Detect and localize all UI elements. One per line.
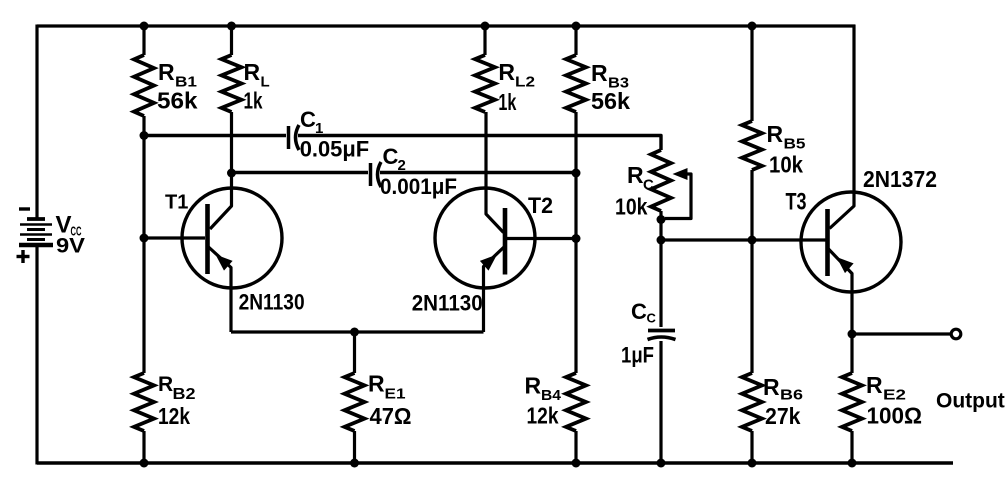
- wire T2 emitter lead: [484, 247, 505, 332]
- wire bottom ground rail: [37, 461, 953, 464]
- svg-text:27k: 27k: [765, 403, 801, 429]
- node T1 base tap: [140, 234, 149, 243]
- node T3 emitter / RE2 / output: [848, 330, 857, 339]
- svg-text:56k: 56k: [157, 88, 198, 114]
- capacitor Cc bottom plate: [648, 337, 676, 340]
- node T2 base / RB3 line: [572, 234, 581, 243]
- transistor T2 emitter arrow (PNP): [480, 255, 497, 271]
- wire T1 base lead: [144, 236, 205, 239]
- transistor T2 body: [435, 188, 535, 288]
- svg-text:2N1130: 2N1130: [412, 291, 483, 316]
- wire C2 right (to T2 base node): [380, 171, 576, 174]
- svg-text:C: C: [643, 177, 654, 194]
- transistor T1 body: [182, 188, 282, 288]
- svg-text:B4: B4: [541, 387, 562, 404]
- svg-text:C: C: [300, 107, 316, 132]
- wire RB3 top lead: [574, 26, 577, 55]
- wire T2 base lead: [507, 237, 576, 240]
- transistor T1 emitter arrow (PNP): [216, 255, 233, 271]
- wire RB5 bottom to RB6 top: [750, 170, 753, 373]
- wire T3 collector lead: [830, 25, 855, 229]
- wire T1/T2 emitter bus: [231, 330, 484, 333]
- svg-text:56k: 56k: [591, 88, 630, 114]
- wire T1 collector lead: [210, 173, 232, 229]
- transistor T3 emitter arrow (PNP): [837, 257, 854, 273]
- node bottom rail / Cc: [657, 459, 666, 468]
- svg-text:R: R: [244, 59, 261, 85]
- node bottom rail / RE2: [848, 459, 857, 468]
- node RL / C2 / T1 collector: [227, 169, 236, 178]
- wire RB4 bottom lead: [574, 431, 577, 463]
- wire RE2 top lead: [850, 334, 853, 373]
- svg-text:R: R: [866, 372, 883, 398]
- transistor T3 base bar: [825, 209, 830, 276]
- capacitor C1 right plate: [296, 125, 300, 150]
- capacitor Cc top plate: [648, 329, 675, 333]
- wire RC wiper link: [665, 174, 691, 219]
- svg-text:T2: T2: [528, 193, 553, 218]
- node bottom rail / RB2: [140, 459, 149, 468]
- node RB1/C1/base junction: [140, 131, 149, 140]
- svg-text:1μF: 1μF: [621, 343, 654, 368]
- wire RL2 bottom to T2 collector: [486, 112, 504, 233]
- svg-text:Output: Output: [936, 390, 1005, 413]
- wire T3 base lead short: [824, 238, 826, 241]
- wire RL bottom to T1 collector junction: [230, 112, 233, 173]
- node bottom rail / RB6: [748, 459, 757, 468]
- resistor RE1: [345, 373, 365, 431]
- capacitor C2 right plate: [378, 162, 382, 187]
- svg-text:R: R: [368, 371, 385, 397]
- wire RB1 top lead: [142, 26, 145, 55]
- wire T3 emitter lead: [829, 249, 853, 334]
- transistor T2 base bar: [503, 208, 508, 275]
- svg-text:10k: 10k: [769, 152, 803, 178]
- transistor T1 base bar: [205, 204, 210, 274]
- svg-text:0.001μF: 0.001μF: [380, 174, 457, 199]
- wire left battery branch upper: [35, 25, 38, 220]
- wire left battery branch lower: [35, 244, 38, 465]
- wire C1 left (from T1 base): [144, 134, 286, 137]
- resistor RB3: [566, 55, 586, 112]
- svg-text:E1: E1: [385, 386, 406, 403]
- svg-text:B2: B2: [173, 386, 196, 403]
- svg-text:R: R: [158, 373, 173, 396]
- svg-text:1k: 1k: [498, 89, 516, 115]
- svg-text:E2: E2: [883, 387, 906, 404]
- svg-text:R: R: [767, 121, 784, 147]
- resistor RE2: [842, 373, 862, 431]
- svg-text:R: R: [525, 373, 542, 399]
- svg-text:R: R: [158, 59, 175, 85]
- svg-text:10k: 10k: [615, 194, 648, 220]
- resistor RB6: [742, 373, 762, 431]
- wire RB1 bottom to RB2 top: [142, 116, 145, 373]
- svg-text:12k: 12k: [158, 403, 190, 429]
- resistor RL2: [475, 55, 495, 112]
- node top rail / RL: [227, 22, 236, 31]
- node top rail / RB1: [140, 22, 149, 31]
- wire RL2 top lead: [483, 26, 486, 55]
- resistor RC: [651, 150, 671, 211]
- wire RC junction to T3 base: [661, 238, 825, 241]
- wire C2 left (from T1 collector): [232, 171, 369, 174]
- wire RB5 top lead: [750, 26, 753, 121]
- svg-text:L2: L2: [515, 74, 535, 91]
- battery minus sign: [19, 207, 30, 210]
- wire Cc top lead: [659, 240, 662, 327]
- node bottom rail / RE1: [350, 459, 359, 468]
- capacitor C2 left plate: [369, 163, 373, 186]
- svg-text:2N1372: 2N1372: [863, 166, 937, 192]
- svg-text:B6: B6: [780, 387, 803, 404]
- transistor T3 body: [801, 192, 901, 292]
- node emitter bus / RE1: [350, 328, 359, 337]
- wire RC bottom lead: [659, 211, 662, 240]
- svg-text:47Ω: 47Ω: [370, 403, 412, 429]
- wire top supply rail: [37, 24, 855, 27]
- node top rail / RB5: [748, 22, 757, 31]
- svg-text:100Ω: 100Ω: [867, 403, 923, 429]
- svg-text:T3: T3: [786, 189, 807, 216]
- node RC / Cc / T3 base junction: [657, 236, 666, 245]
- rheostat RC wiper arrow: [673, 168, 688, 180]
- svg-text:B5: B5: [784, 136, 806, 153]
- resistor RL: [222, 55, 242, 112]
- wire RB3 bottom to RB4 top: [574, 112, 577, 373]
- svg-text:9V: 9V: [56, 235, 85, 258]
- resistor RB1: [134, 55, 154, 116]
- terminal output (open circle): [951, 329, 961, 339]
- svg-text:1k: 1k: [244, 88, 263, 114]
- wire RL top lead: [230, 26, 233, 55]
- wire RB6 bottom lead: [750, 431, 753, 463]
- svg-text:C: C: [631, 299, 647, 324]
- node RB5 line / T3 base wire: [748, 236, 757, 245]
- battery plus sign: [17, 255, 30, 258]
- svg-text:R: R: [627, 162, 644, 188]
- svg-text:12k: 12k: [527, 403, 559, 429]
- svg-text:R: R: [498, 59, 515, 85]
- wire Cc bottom lead: [659, 341, 662, 463]
- node RB3 / C2 junction: [572, 169, 581, 178]
- resistor RB2: [134, 373, 154, 431]
- resistor RB5: [742, 121, 762, 170]
- node RC bottom terminal: [657, 215, 666, 224]
- svg-text:0.05μF: 0.05μF: [300, 137, 370, 162]
- svg-text:C: C: [383, 144, 399, 169]
- capacitor C1 left plate: [287, 126, 291, 149]
- svg-text:R: R: [763, 374, 780, 400]
- node bottom rail / RB4: [572, 459, 581, 468]
- resistor RB4: [566, 373, 586, 431]
- svg-text:T1: T1: [165, 192, 188, 214]
- battery Vcc 9V: [27, 217, 45, 221]
- wire RE1 bottom lead: [353, 431, 356, 463]
- wire RB2 bottom lead: [142, 431, 145, 463]
- node top rail / RL2: [481, 22, 490, 31]
- wire C1 right (to RC top): [298, 136, 661, 151]
- node top rail / RB3: [572, 22, 581, 31]
- wire RE2 bottom lead: [850, 431, 853, 463]
- wire T1 emitter lead: [209, 247, 232, 332]
- svg-text:2N1130: 2N1130: [239, 290, 305, 315]
- wire output lead: [852, 332, 950, 335]
- svg-text:R: R: [591, 60, 608, 86]
- svg-text:C: C: [647, 311, 657, 326]
- wire RE1 top lead: [353, 332, 356, 373]
